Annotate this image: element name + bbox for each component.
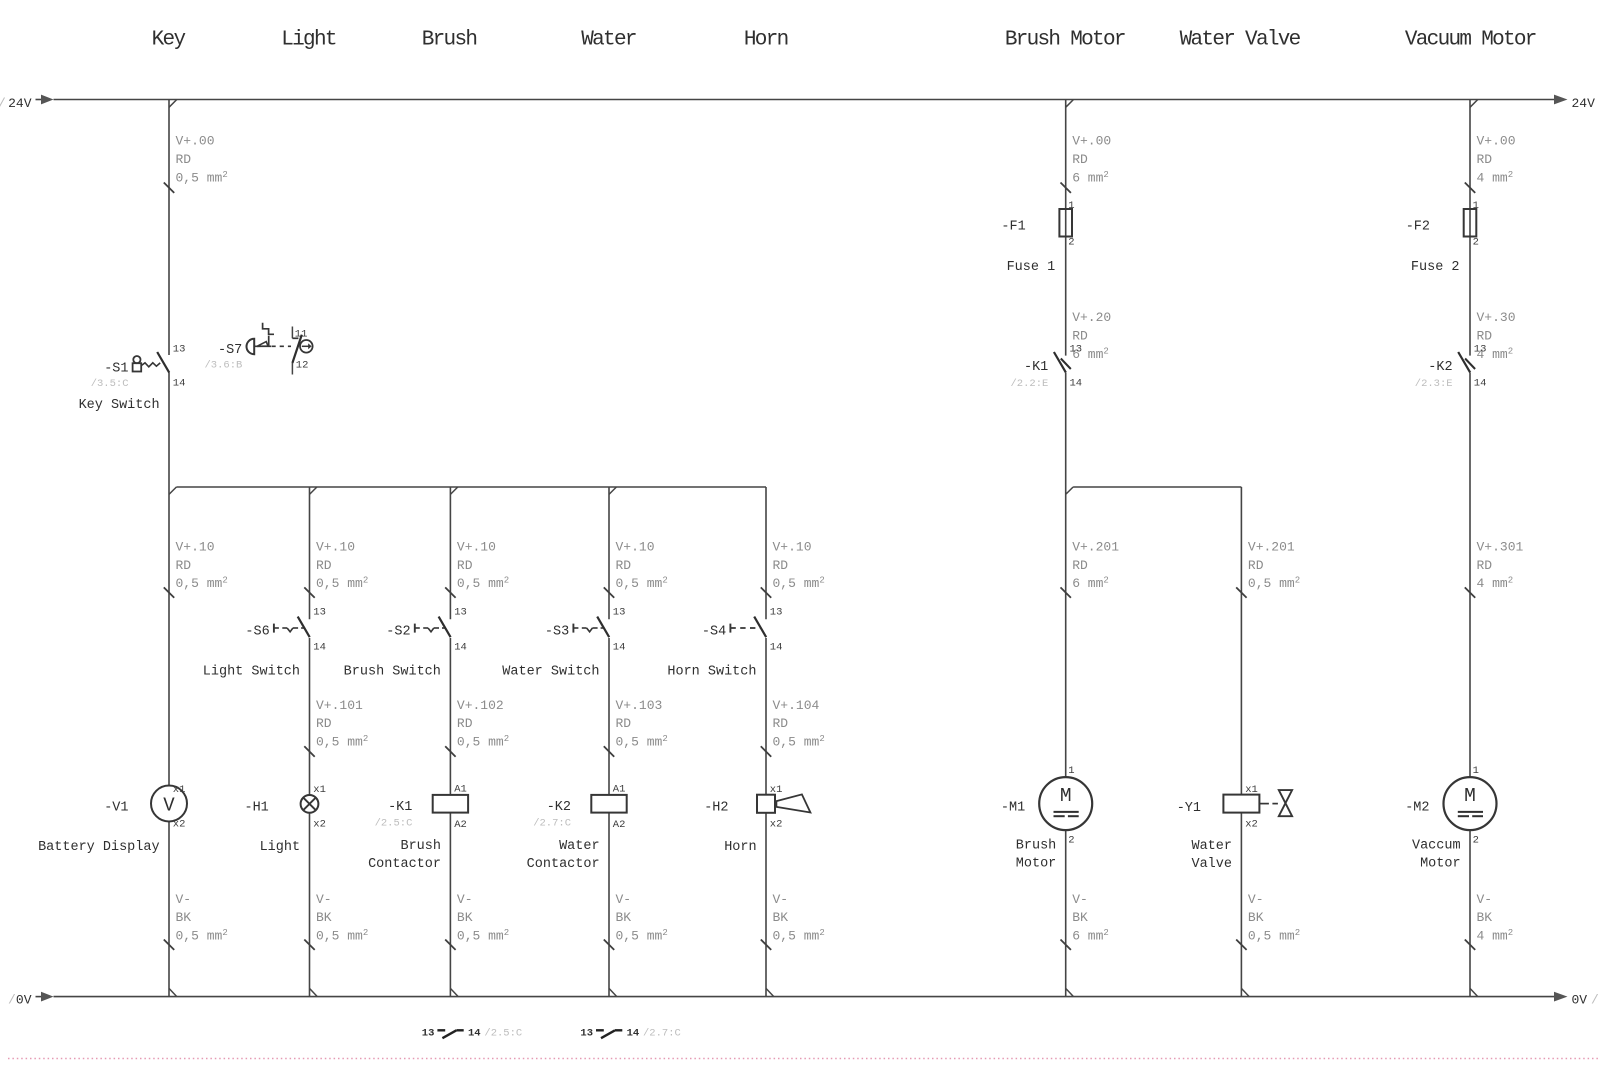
svg-text:Contactor: Contactor [527,857,600,872]
svg-text:/: / [8,993,16,1008]
svg-text:Horn: Horn [744,29,788,52]
pedal switch S7 [204,323,312,375]
svg-text:0,5 mm2: 0,5 mm2 [316,734,368,750]
svg-text:BK: BK [1477,910,1493,925]
svg-text:A2: A2 [613,819,626,831]
svg-text:Motor: Motor [1420,856,1461,871]
battery display V1 (voltmeter) [38,784,187,855]
svg-text:V+.10: V+.10 [773,539,812,554]
svg-text:4 mm2: 4 mm2 [1477,576,1514,592]
svg-text:-S6: -S6 [245,625,269,640]
node column header Horn [744,29,788,52]
svg-text:0V: 0V [1572,993,1588,1008]
svg-text:RD: RD [176,152,192,167]
svg-text:Vacuum Motor: Vacuum Motor [1405,29,1536,52]
svg-text:/2.5:C: /2.5:C [484,1028,522,1040]
svg-text:/3.5:C: /3.5:C [91,378,129,390]
mirror contact K1 13-14 cross-reference [422,1028,522,1040]
svg-text:0,5 mm2: 0,5 mm2 [616,928,668,944]
wire label V+.00 RD 4mm2 (Vacuum Motor) [1465,134,1516,193]
svg-text:-F1: -F1 [1001,220,1025,235]
svg-text:V+.00: V+.00 [1072,134,1111,149]
svg-text:Key Switch: Key Switch [79,398,160,413]
svg-text:-M2: -M2 [1405,801,1429,816]
svg-text:0,5 mm2: 0,5 mm2 [773,734,825,750]
svg-text:V+.10: V+.10 [176,539,215,554]
svg-text:0,5 mm2: 0,5 mm2 [176,170,228,186]
svg-text:RD: RD [1248,558,1264,573]
svg-text:BK: BK [1248,910,1264,925]
svg-text:14: 14 [173,378,186,390]
wire label V+.10 (Light) [304,539,368,597]
svg-text:14: 14 [454,642,467,654]
svg-text:-Y1: -Y1 [1177,801,1201,816]
svg-text:-H2: -H2 [704,801,728,816]
svg-text:/2.2:E: /2.2:E [1010,378,1048,390]
svg-text:BK: BK [457,910,473,925]
svg-text:V+.201: V+.201 [1248,539,1295,554]
svg-text:V+.201: V+.201 [1072,539,1119,554]
motor M1 (Brush Motor, DC) [1001,765,1092,871]
svg-text:V+.102: V+.102 [457,698,504,713]
net 0V rail [8,992,1599,1008]
svg-text:0,5 mm2: 0,5 mm2 [616,734,668,750]
svg-text:24V: 24V [8,96,32,111]
wire label V+.104 [761,698,825,757]
motor M2 (Vacuum Motor, DC) [1405,765,1496,871]
svg-text:V+.00: V+.00 [176,134,215,149]
svg-text:Brush: Brush [1016,839,1057,854]
svg-text:V+.104: V+.104 [773,698,820,713]
svg-text:0,5 mm2: 0,5 mm2 [457,734,509,750]
switch S2 (Brush Switch) [344,607,467,680]
svg-text:14: 14 [627,1028,640,1040]
svg-text:Water Switch: Water Switch [502,665,599,680]
svg-text:Battery Display: Battery Display [38,840,160,855]
svg-text:2: 2 [1068,237,1074,249]
svg-text:0V: 0V [16,993,32,1008]
svg-text:-H1: -H1 [244,801,268,816]
svg-text:x2: x2 [313,819,326,831]
svg-text:V+.30: V+.30 [1477,310,1516,325]
svg-text:RD: RD [1072,329,1088,344]
svg-text:Motor: Motor [1016,856,1057,871]
wire bus V+.201 (K1 load side to Y1) [1066,487,1242,494]
svg-text:-K2: -K2 [1428,360,1452,375]
svg-text:V+.103: V+.103 [616,698,663,713]
svg-text:13: 13 [454,607,467,619]
svg-text:V-: V- [316,892,332,907]
svg-text:-V1: -V1 [104,801,128,816]
node column header Water [581,29,636,52]
svg-text:Water: Water [581,29,636,52]
wire label V- BK 0,5mm2 (Key) [164,892,228,950]
switch S6 (Light Switch) [203,607,326,680]
svg-text:/: / [1591,993,1599,1008]
svg-text:V+.20: V+.20 [1072,310,1111,325]
svg-text:0,5 mm2: 0,5 mm2 [176,576,228,592]
svg-text:-S7: -S7 [218,343,242,358]
svg-text:-F2: -F2 [1406,220,1430,235]
svg-text:x2: x2 [770,819,783,831]
svg-text:RD: RD [316,716,332,731]
svg-text:-K2: -K2 [547,800,571,815]
svg-text:Light Switch: Light Switch [203,665,300,680]
contactor coil K1 (Brush Contactor) [368,784,468,872]
svg-text:Brush Motor: Brush Motor [1005,29,1125,52]
svg-text:-S3: -S3 [545,625,569,640]
wire distribution bus V+.10 (S1 load side) [169,487,766,494]
svg-text:RD: RD [773,716,789,731]
svg-text:RD: RD [1072,152,1088,167]
node column header Brush [422,29,477,52]
svg-text:-M1: -M1 [1001,801,1025,816]
svg-text:Brush: Brush [400,839,441,854]
wire label V+.00 RD 6mm2 (Brush Motor) [1061,134,1112,193]
wire Water Valve branch [1241,487,1249,997]
svg-text:Water: Water [1191,839,1232,854]
svg-text:13: 13 [313,607,326,619]
svg-text:Water: Water [559,839,600,854]
svg-text:13: 13 [422,1028,435,1040]
svg-text:/2.3:E: /2.3:E [1415,378,1453,390]
wire label V- BK 4mm2 (Vacuum Motor) [1465,892,1513,950]
svg-text:Horn: Horn [724,840,756,855]
wire Water branch [609,487,617,997]
svg-text:A1: A1 [454,784,467,796]
svg-text:4 mm2: 4 mm2 [1477,928,1514,944]
svg-text:M: M [1060,785,1072,807]
wire label V+.10 (Brush) [445,539,509,597]
svg-text:V-: V- [773,892,789,907]
page break marker (dotted) [8,1058,1600,1060]
svg-text:13: 13 [770,607,783,619]
svg-text:11: 11 [295,329,308,341]
wire label V+.20 RD 6mm2 [1072,310,1111,362]
wire Horn branch [766,487,774,997]
svg-text:x2: x2 [173,819,186,831]
contactor coil K2 (Water Contactor) [527,784,627,872]
svg-text:14: 14 [313,642,326,654]
svg-text:V+.301: V+.301 [1477,539,1524,554]
svg-text:-K1: -K1 [1024,360,1048,375]
wire label V- BK 0,5mm2 (Water Valve) [1236,892,1300,950]
svg-text:x2: x2 [1245,819,1258,831]
fuse F2 [1406,200,1479,275]
svg-text:RD: RD [616,716,632,731]
svg-text:V-: V- [1072,892,1088,907]
svg-text:0,5 mm2: 0,5 mm2 [316,928,368,944]
svg-text:/3.6:B: /3.6:B [204,360,242,372]
wire label V- BK 6mm2 (Brush Motor) [1061,892,1109,950]
svg-text:Light: Light [281,29,336,52]
svg-text:M: M [1464,785,1476,807]
node column header Vacuum Motor [1405,29,1536,52]
svg-text:0,5 mm2: 0,5 mm2 [1248,928,1300,944]
wire label V+.10 (Horn) [761,539,825,597]
svg-text:BK: BK [176,910,192,925]
svg-text:0,5 mm2: 0,5 mm2 [457,576,509,592]
contact K1 13/14 [1010,344,1082,390]
solenoid valve Y1 (Water Valve) [1177,784,1292,872]
svg-text:RD: RD [457,558,473,573]
svg-text:RD: RD [457,716,473,731]
wire label V- BK 0,5mm2 (Horn) [761,892,825,950]
svg-text:2: 2 [1473,835,1479,847]
svg-text:Water Valve: Water Valve [1180,29,1301,52]
svg-text:Key: Key [152,29,186,52]
svg-text:V+.10: V+.10 [316,539,355,554]
svg-text:Valve: Valve [1191,857,1232,872]
net 24V rail [0,95,1595,111]
svg-text:13: 13 [1070,344,1083,356]
svg-text:14: 14 [770,642,783,654]
svg-text:14: 14 [1474,378,1487,390]
svg-text:12: 12 [296,360,309,372]
wire label V+.102 [445,698,509,757]
svg-text:0,5 mm2: 0,5 mm2 [773,928,825,944]
svg-text:1: 1 [1068,765,1074,777]
svg-text:0,5 mm2: 0,5 mm2 [616,576,668,592]
svg-text:13: 13 [613,607,626,619]
svg-text:A2: A2 [454,819,467,831]
wire label V+.10 (Water) [604,539,668,597]
svg-text:14: 14 [613,642,626,654]
svg-text:V+.00: V+.00 [1477,134,1516,149]
svg-text:BK: BK [773,910,789,925]
wire label V+.30 RD 4mm2 [1477,310,1516,362]
svg-text:V-: V- [1248,892,1264,907]
svg-text:Brush Switch: Brush Switch [344,665,441,680]
svg-text:V+.101: V+.101 [316,698,363,713]
svg-text:6 mm2: 6 mm2 [1072,928,1109,944]
svg-text:RD: RD [1477,329,1493,344]
wire label V+.101 [304,698,368,757]
svg-text:13: 13 [1474,344,1487,356]
svg-text:Brush: Brush [422,29,477,52]
svg-text:Horn Switch: Horn Switch [667,665,756,680]
wire Light branch [310,487,318,997]
svg-text:-K1: -K1 [388,800,412,815]
svg-text:RD: RD [616,558,632,573]
svg-text:6 mm2: 6 mm2 [1072,576,1109,592]
svg-text:V-: V- [1477,892,1493,907]
svg-text:Light: Light [260,840,301,855]
svg-text:/: / [0,96,6,111]
key switch S1 [79,344,186,414]
fuse F1 [1001,200,1074,275]
svg-text:RD: RD [176,558,192,573]
svg-text:BK: BK [316,910,332,925]
svg-text:1: 1 [1473,765,1479,777]
svg-text:RD: RD [1477,152,1493,167]
svg-text:-S2: -S2 [386,625,410,640]
svg-text:-S4: -S4 [702,625,726,640]
svg-text:/2.7:C: /2.7:C [533,818,571,830]
svg-text:V-: V- [616,892,632,907]
wire label V+.201 RD 0,5mm2 [1236,539,1300,597]
wire label V+.10 (Key) [164,539,228,597]
node column header Key [152,29,186,52]
wire label V- BK 0,5mm2 (Light) [304,892,368,950]
svg-text:0,5 mm2: 0,5 mm2 [457,928,509,944]
wire label V+.103 [604,698,668,757]
svg-text:13: 13 [173,344,186,356]
svg-text:1: 1 [1068,200,1074,212]
svg-text:V-: V- [457,892,473,907]
svg-text:6 mm2: 6 mm2 [1072,170,1109,186]
wire label V+.00 RD 0,5mm2 (Key) [164,134,228,193]
svg-text:24V: 24V [1572,96,1596,111]
svg-text:RD: RD [1477,558,1493,573]
svg-text:0,5 mm2: 0,5 mm2 [773,576,825,592]
svg-text:x1: x1 [313,784,326,796]
svg-text:RD: RD [773,558,789,573]
svg-text:-S1: -S1 [104,362,128,377]
switch S4 (Horn Switch) [667,607,782,680]
svg-text:BK: BK [616,910,632,925]
svg-text:0,5 mm2: 0,5 mm2 [1248,576,1300,592]
svg-text:V+.10: V+.10 [616,539,655,554]
svg-text:V: V [163,794,175,816]
wire label V+.301 RD 4mm2 [1465,539,1524,597]
svg-text:0,5 mm2: 0,5 mm2 [316,576,368,592]
wire Brush Motor branch [1066,100,1074,997]
svg-text:BK: BK [1072,910,1088,925]
horn H2 [704,784,810,855]
svg-text:A1: A1 [613,784,626,796]
node column header Light [281,29,336,52]
wire label V- BK 0,5mm2 (Water) [604,892,668,950]
mirror contact K2 13-14 cross-reference [580,1028,680,1040]
svg-text:13: 13 [580,1028,593,1040]
svg-text:2: 2 [1068,835,1074,847]
svg-text:/2.7:C: /2.7:C [643,1028,681,1040]
wire label V- BK 0,5mm2 (Brush) [445,892,509,950]
svg-text:Fuse 2: Fuse 2 [1411,260,1460,275]
wire Brush branch [450,487,458,997]
svg-text:RD: RD [1072,558,1088,573]
switch S3 (Water Switch) [502,607,625,680]
svg-text:2: 2 [1473,237,1479,249]
node column header Water Valve [1180,29,1301,52]
svg-text:1: 1 [1473,200,1479,212]
svg-text:V-: V- [176,892,192,907]
svg-text:V+.10: V+.10 [457,539,496,554]
contact K2 13/14 [1415,344,1487,390]
svg-text:14: 14 [1070,378,1083,390]
svg-text:0,5 mm2: 0,5 mm2 [176,928,228,944]
svg-text:RD: RD [316,558,332,573]
svg-text:Fuse 1: Fuse 1 [1007,260,1056,275]
svg-text:14: 14 [468,1028,481,1040]
svg-text:Vaccum: Vaccum [1412,839,1461,854]
node column header Brush Motor [1005,29,1125,52]
svg-text:Contactor: Contactor [368,857,441,872]
svg-text:4 mm2: 4 mm2 [1477,170,1514,186]
wire Key branch (V+.00 / V+.10 / V-) [169,100,177,997]
wire label V+.201 RD 6mm2 [1061,539,1120,597]
lamp H1 (Light) [244,784,325,855]
wire Vacuum Motor branch [1470,100,1478,997]
svg-text:/2.5:C: /2.5:C [375,818,413,830]
